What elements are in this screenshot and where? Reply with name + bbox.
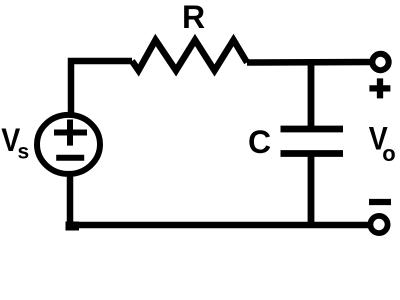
wire: source bottom lead [67, 172, 74, 225]
wire: capacitor bottom lead down to bottom rail [308, 154, 315, 226]
wire: capacitor top lead (T-junction down from top wire) [308, 60, 315, 130]
svg-text:C: C [248, 124, 271, 160]
plus sign at output [369, 78, 390, 98]
plus sign inside source [54, 120, 87, 146]
wire: top-left corner (source top lead up and across to resistor) [71, 61, 132, 117]
minus sign inside source [56, 155, 84, 161]
wire: top horizontal from resistor to output terminal [247, 59, 372, 66]
voltage source Vs circle [37, 115, 100, 174]
junction dot at bottom-left corner [66, 222, 80, 231]
wire: bottom horizontal rail [70, 222, 370, 229]
minus sign at output [369, 199, 391, 205]
svg-text:s: s [18, 140, 30, 163]
terminal: top-right output (open circle) [372, 54, 388, 70]
capacitor C bottom plate [281, 150, 344, 157]
svg-text:R: R [182, 0, 205, 35]
terminal: bottom-right output (open circle) [370, 216, 387, 233]
capacitor C top plate [281, 126, 344, 133]
svg-text:o: o [382, 141, 395, 166]
resistor R zigzag [132, 40, 247, 71]
